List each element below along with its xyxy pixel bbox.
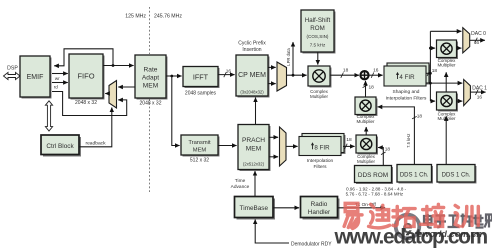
block DDS ROM — [355, 166, 394, 185]
block PRACH MEM — [238, 125, 271, 172]
svg-text:(2x512x32): (2x512x32) — [243, 162, 265, 167]
svg-text:512 x 32: 512 x 32 — [190, 158, 209, 164]
svg-text:16: 16 — [477, 95, 483, 101]
svg-text:2048 x 32: 2048 x 32 — [75, 100, 97, 106]
wire EMIF wr to FIFO — [52, 73, 68, 75]
block Ctrl Block — [41, 135, 81, 157]
svg-text:18: 18 — [343, 67, 349, 73]
svg-text:Adapt: Adapt — [142, 75, 159, 82]
svg-text:16: 16 — [226, 69, 232, 75]
wire Half-Shift ROM to U1 — [317, 52, 319, 65]
block DDS 1 Ch. (second) — [437, 165, 477, 184]
svg-text:Multiplier: Multiplier — [437, 116, 456, 121]
svg-text:DDS ROM: DDS ROM — [358, 172, 388, 179]
wire Radio Handler Tx On-Off — [338, 207, 386, 209]
mux after CP MEM — [277, 62, 287, 91]
clock domain divider dashed line — [149, 7, 151, 194]
svg-text:5.76 - 6.72 - 7.68 - 8.64 MHz: 5.76 - 6.72 - 7.68 - 8.64 MHz — [346, 191, 404, 196]
wire to U5 input — [430, 100, 435, 102]
wire PRACH MEM to CP MEM (up) — [255, 98, 257, 125]
wire U3 to U2 (up) — [365, 127, 367, 135]
wire bypass to DAC 0 mux — [430, 30, 461, 32]
block FIFO — [69, 54, 105, 100]
svg-text:FIFO: FIFO — [77, 72, 94, 81]
svg-text:EMIF: EMIF — [27, 74, 44, 81]
wire Rate Adapt MEM to writeback mux — [118, 86, 135, 88]
svg-text:18: 18 — [385, 146, 391, 152]
svg-text:MEM: MEM — [246, 146, 261, 153]
mux before DAC 0 — [463, 28, 470, 53]
pin/bus width labels — [54, 31, 487, 247]
svg-text:TimeBase: TimeBase — [240, 205, 269, 212]
svg-text:PRACH: PRACH — [242, 137, 265, 144]
DSP bidirectional bus arrow — [4, 72, 21, 79]
svg-text:Insertion: Insertion — [242, 47, 261, 53]
watermark chinese red text yi di tuo pei xun — [344, 203, 478, 228]
complex multiplier U3 (PRACH lower) — [356, 135, 378, 155]
svg-text:7.5 kHz: 7.5 kHz — [310, 43, 326, 48]
block Half-Shift ROM — [301, 10, 336, 54]
watermark eeworld chinese text — [424, 214, 492, 228]
wire Demodulator RDY to TimeBase — [255, 220, 289, 244]
svg-text:245.76 MHz: 245.76 MHz — [154, 14, 182, 20]
svg-text:Filters: Filters — [313, 164, 327, 170]
wire feedback branch to EMIF — [54, 49, 113, 66]
wire U1 to adder — [330, 74, 359, 76]
svg-text:Shaping and: Shaping and — [393, 89, 420, 95]
block 4 FIR shaping filter bank — [384, 63, 431, 86]
svg-text:Complex: Complex — [310, 89, 329, 94]
wire EMIF rd to FIFO — [52, 82, 68, 84]
mux before DAC 1 — [464, 80, 471, 106]
svg-text:4 FIR: 4 FIR — [399, 74, 415, 81]
mux after FIFO (writeback mux) — [109, 81, 117, 109]
wire U5 to U4 (up) — [445, 72, 447, 92]
svg-text:Multiplier: Multiplier — [437, 63, 456, 68]
wire mux to complex multiplier U1 — [287, 74, 307, 76]
svg-text:Multiplier: Multiplier — [356, 119, 375, 124]
wire writeback mux to FIFO — [105, 93, 109, 95]
svg-text:(COS,SIN): (COS,SIN) — [307, 34, 329, 39]
block IFFT — [183, 67, 220, 89]
wire PRACH mux to 8 FIR — [286, 145, 298, 147]
wire EMIF data loop to writeback mux — [52, 92, 127, 116]
wire adder to 4 FIR — [369, 74, 383, 76]
svg-text:DSP: DSP — [7, 66, 18, 72]
svg-text:16: 16 — [474, 40, 480, 46]
adder (summing node) — [360, 71, 368, 79]
wire bypass to DAC 1 mux — [430, 82, 462, 84]
svg-text:LPR data: LPR data — [286, 48, 291, 66]
wire Transmit MEM to PRACH MEM — [218, 145, 237, 147]
EMIF to Ctrl Block bidirectional arrow — [45, 101, 52, 131]
wire 4 FIR output to junction — [426, 72, 430, 74]
wire U4 to DAC 0 mux — [457, 47, 462, 49]
wire 8 FIR to U3 — [343, 145, 355, 147]
svg-text:Advance: Advance — [231, 184, 250, 190]
bus width slashes — [224, 38, 478, 155]
svg-text:Multiplier: Multiplier — [310, 94, 329, 99]
wire branch to Transmit MEM — [172, 76, 180, 146]
svg-text:wr: wr — [55, 76, 60, 81]
wire U5 to DAC 1 mux — [457, 100, 463, 102]
svg-text:18: 18 — [417, 113, 423, 119]
svg-text:2048 samples: 2048 samples — [185, 91, 217, 97]
junction dots — [112, 47, 432, 85]
wire to U4 input — [430, 47, 435, 49]
svg-text:Cyclic Prefix: Cyclic Prefix — [238, 41, 266, 47]
svg-text:rd: rd — [54, 84, 58, 89]
wire DDS 1 Ch to U2 (7.5 kHz) — [378, 107, 415, 165]
svg-text:Ctrl Block: Ctrl Block — [46, 143, 74, 150]
wire PRACH MEM to mux (upper) — [269, 136, 278, 138]
svg-text:8 FIR: 8 FIR — [314, 144, 330, 151]
svg-text:Multiplier: Multiplier — [357, 159, 376, 164]
wire TimeBase to Radio Handler — [273, 207, 299, 209]
svg-text:2048 x 32: 2048 x 32 — [140, 101, 162, 107]
complex multiplier U5 (DAC 1) — [437, 92, 459, 112]
svg-text:IFFT: IFFT — [193, 73, 209, 82]
wire Ctrl Block readback to mux select — [80, 108, 112, 147]
watermark eeworld logo circle — [396, 215, 420, 239]
wire DDS 1 Ch second to U5 (up) — [445, 116, 447, 164]
svg-text:18: 18 — [369, 85, 375, 91]
complex multiplier U4 (DAC 0) — [437, 40, 459, 59]
svg-text:Interpolation: Interpolation — [307, 158, 334, 164]
svg-text:DAC 1: DAC 1 — [472, 86, 487, 92]
svg-text:Interpolation Filters: Interpolation Filters — [386, 96, 427, 102]
block 8 FIR interpolation filter bank — [299, 134, 346, 156]
block Radio Handler — [301, 197, 340, 220]
wire TimeBase to PRACH MEM (time advance) — [254, 171, 256, 197]
svg-text:(3x2048x32): (3x2048x32) — [240, 90, 264, 95]
svg-text:MEM: MEM — [143, 83, 158, 90]
svg-text:125 MHz: 125 MHz — [125, 14, 146, 20]
wire PRACH MEM to mux (lower) — [269, 156, 278, 158]
svg-text:Time: Time — [235, 178, 246, 184]
svg-text:Handler: Handler — [308, 209, 331, 216]
block CP MEM — [236, 55, 270, 98]
svg-text:Radio: Radio — [311, 201, 328, 208]
svg-text:DDS 1 Ch.: DDS 1 Ch. — [442, 173, 471, 179]
svg-text:Demodulator RDY: Demodulator RDY — [291, 241, 332, 247]
svg-text:DAC 0: DAC 0 — [471, 31, 486, 37]
block DDS 1 Ch. (first) — [397, 165, 433, 184]
svg-text:7.5 kHz: 7.5 kHz — [406, 134, 411, 148]
mux after PRACH MEM — [280, 127, 287, 166]
wire DAC 0 output — [470, 39, 485, 41]
wire FIFO to Rate Adapt MEM — [103, 65, 134, 67]
svg-text:16: 16 — [373, 67, 379, 73]
block TimeBase — [235, 197, 276, 220]
wire Rate Adapt MEM to IFFT — [166, 75, 182, 77]
block Transmit MEM — [181, 135, 220, 157]
complex multiplier U2 (PRACH upper) — [355, 97, 378, 116]
svg-text:18: 18 — [346, 137, 352, 143]
complex multiplier U1 (CP path) — [308, 66, 332, 88]
wire CP MEM to mux (upper) — [268, 66, 276, 68]
block Rate Adapt MEM — [135, 55, 168, 100]
svg-text:DDS 1 Ch.: DDS 1 Ch. — [400, 173, 429, 179]
wire DDS ROM to U3 — [378, 148, 383, 166]
svg-text:Transmit: Transmit — [188, 140, 211, 146]
wire IFFT to CP MEM — [218, 74, 235, 76]
wire LPR data tap (up) — [292, 42, 294, 75]
svg-text:CP MEM: CP MEM — [238, 72, 266, 79]
wire CP MEM to mux (lower) — [268, 83, 276, 85]
wire U2 to adder (up) — [365, 81, 367, 97]
svg-text:ROM: ROM — [310, 25, 324, 32]
svg-text:www.edatop.com: www.edatop.com — [334, 226, 488, 249]
svg-text:18: 18 — [432, 68, 438, 74]
wire junction vertical bus — [429, 31, 431, 101]
svg-text:MEM: MEM — [193, 147, 207, 153]
svg-text:Half-Shift: Half-Shift — [305, 17, 331, 24]
block EMIF — [20, 56, 52, 99]
svg-text:Rate: Rate — [144, 67, 158, 74]
svg-text:readback: readback — [85, 141, 106, 147]
wire DAC 1 output — [470, 91, 485, 93]
